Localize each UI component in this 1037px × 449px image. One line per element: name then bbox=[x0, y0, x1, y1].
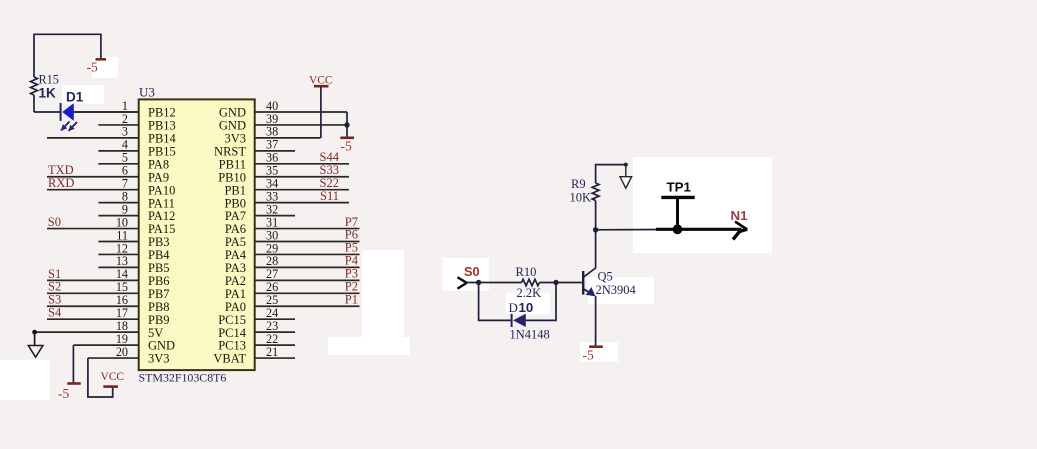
svg-text:PA9: PA9 bbox=[148, 170, 169, 184]
svg-text:27: 27 bbox=[266, 267, 278, 281]
svg-text:PB10: PB10 bbox=[218, 170, 246, 184]
svg-text:N1: N1 bbox=[731, 208, 749, 223]
svg-text:9: 9 bbox=[122, 202, 128, 216]
svg-text:1: 1 bbox=[122, 99, 128, 113]
svg-text:31: 31 bbox=[266, 215, 278, 229]
svg-text:GND: GND bbox=[219, 106, 246, 120]
svg-text:6: 6 bbox=[122, 164, 128, 178]
svg-text:40: 40 bbox=[266, 99, 278, 113]
svg-text:19: 19 bbox=[116, 332, 128, 346]
svg-text:Q5: Q5 bbox=[598, 269, 613, 283]
svg-text:TP1: TP1 bbox=[667, 179, 692, 194]
svg-text:22: 22 bbox=[266, 332, 278, 346]
svg-text:36: 36 bbox=[266, 151, 278, 165]
svg-text:8: 8 bbox=[122, 189, 128, 203]
svg-text:20: 20 bbox=[116, 345, 128, 359]
svg-text:PB1: PB1 bbox=[224, 183, 246, 197]
svg-text:S3: S3 bbox=[48, 293, 61, 307]
svg-text:26: 26 bbox=[266, 280, 278, 294]
svg-text:23: 23 bbox=[266, 319, 278, 333]
svg-text:R9: R9 bbox=[571, 177, 586, 191]
svg-text:PA8: PA8 bbox=[148, 157, 169, 171]
svg-text:R15: R15 bbox=[39, 73, 59, 87]
svg-text:PB14: PB14 bbox=[148, 132, 177, 146]
svg-text:D: D bbox=[509, 300, 518, 315]
svg-text:32: 32 bbox=[266, 202, 278, 216]
svg-text:PB4: PB4 bbox=[148, 248, 170, 262]
svg-text:21: 21 bbox=[266, 345, 278, 359]
svg-text:PB13: PB13 bbox=[148, 119, 176, 133]
svg-text:P4: P4 bbox=[345, 254, 359, 268]
svg-text:5V: 5V bbox=[148, 326, 163, 340]
svg-text:PA10: PA10 bbox=[148, 183, 175, 197]
svg-text:PB8: PB8 bbox=[148, 300, 170, 314]
svg-text:1N4148: 1N4148 bbox=[510, 328, 550, 342]
svg-text:PA5: PA5 bbox=[225, 235, 246, 249]
svg-text:29: 29 bbox=[266, 241, 278, 255]
svg-text:S44: S44 bbox=[320, 150, 340, 164]
svg-text:NRST: NRST bbox=[214, 144, 246, 158]
svg-text:PB15: PB15 bbox=[148, 144, 176, 158]
svg-text:PB6: PB6 bbox=[148, 274, 170, 288]
svg-text:GND: GND bbox=[148, 339, 175, 353]
svg-text:14: 14 bbox=[116, 267, 128, 281]
svg-text:PA0: PA0 bbox=[225, 300, 246, 314]
svg-text:GND: GND bbox=[219, 119, 246, 133]
svg-text:PA11: PA11 bbox=[148, 196, 175, 210]
svg-text:R10: R10 bbox=[516, 265, 537, 279]
svg-text:12: 12 bbox=[116, 241, 128, 255]
svg-text:S2: S2 bbox=[48, 280, 61, 294]
svg-text:U3: U3 bbox=[139, 84, 155, 99]
svg-text:S33: S33 bbox=[320, 163, 339, 177]
svg-text:PA15: PA15 bbox=[148, 222, 175, 236]
svg-text:S1: S1 bbox=[48, 267, 61, 281]
svg-text:P5: P5 bbox=[345, 241, 358, 255]
svg-text:11: 11 bbox=[116, 228, 128, 242]
svg-text:2: 2 bbox=[122, 112, 128, 126]
svg-text:PA1: PA1 bbox=[225, 287, 246, 301]
svg-text:S0: S0 bbox=[464, 264, 480, 279]
svg-text:VCC: VCC bbox=[309, 75, 332, 87]
svg-text:S11: S11 bbox=[320, 189, 339, 203]
svg-text:35: 35 bbox=[266, 164, 278, 178]
svg-text:TXD: TXD bbox=[48, 163, 74, 177]
svg-text:S22: S22 bbox=[320, 176, 339, 190]
svg-text:PB5: PB5 bbox=[148, 261, 170, 275]
svg-text:PA6: PA6 bbox=[225, 222, 246, 236]
svg-text:4: 4 bbox=[122, 138, 128, 152]
svg-text:S4: S4 bbox=[48, 306, 62, 320]
svg-text:34: 34 bbox=[266, 177, 278, 191]
svg-text:3V3: 3V3 bbox=[148, 352, 170, 366]
svg-text:30: 30 bbox=[266, 228, 278, 242]
svg-text:10K: 10K bbox=[570, 191, 592, 205]
svg-text:-5: -5 bbox=[583, 348, 594, 363]
svg-text:39: 39 bbox=[266, 112, 278, 126]
svg-text:PB9: PB9 bbox=[148, 313, 170, 327]
svg-text:-5: -5 bbox=[58, 386, 69, 401]
svg-text:5: 5 bbox=[122, 151, 128, 165]
svg-text:VCC: VCC bbox=[101, 371, 124, 383]
svg-text:7: 7 bbox=[122, 177, 128, 191]
svg-text:PA7: PA7 bbox=[225, 209, 246, 223]
svg-text:3: 3 bbox=[122, 125, 128, 139]
svg-text:10: 10 bbox=[519, 300, 534, 315]
svg-text:PC15: PC15 bbox=[218, 313, 246, 327]
svg-text:33: 33 bbox=[266, 189, 278, 203]
svg-text:PB0: PB0 bbox=[224, 196, 246, 210]
svg-text:D1: D1 bbox=[66, 90, 84, 105]
svg-text:25: 25 bbox=[266, 293, 278, 307]
svg-text:RXD: RXD bbox=[48, 176, 74, 190]
svg-text:2.2K: 2.2K bbox=[517, 286, 542, 300]
svg-text:10: 10 bbox=[116, 215, 128, 229]
svg-text:13: 13 bbox=[116, 254, 128, 268]
svg-text:PA12: PA12 bbox=[148, 209, 175, 223]
svg-text:P3: P3 bbox=[345, 267, 358, 281]
svg-text:-5: -5 bbox=[87, 60, 98, 75]
svg-text:PA3: PA3 bbox=[225, 261, 246, 275]
svg-text:PC13: PC13 bbox=[218, 339, 246, 353]
svg-text:PB11: PB11 bbox=[219, 157, 246, 171]
svg-text:P6: P6 bbox=[345, 228, 358, 242]
svg-text:VBAT: VBAT bbox=[213, 352, 246, 366]
svg-text:PC14: PC14 bbox=[218, 326, 247, 340]
svg-text:15: 15 bbox=[116, 280, 128, 294]
svg-text:2N3904: 2N3904 bbox=[596, 283, 637, 297]
svg-text:16: 16 bbox=[116, 293, 128, 307]
svg-text:1K: 1K bbox=[39, 86, 57, 101]
svg-text:18: 18 bbox=[116, 319, 128, 333]
svg-text:37: 37 bbox=[266, 138, 278, 152]
svg-text:17: 17 bbox=[116, 306, 128, 320]
svg-text:P1: P1 bbox=[345, 292, 358, 306]
svg-text:28: 28 bbox=[266, 254, 278, 268]
svg-text:PB12: PB12 bbox=[148, 106, 176, 120]
svg-text:3V3: 3V3 bbox=[224, 132, 246, 146]
svg-text:STM32F103C8T6: STM32F103C8T6 bbox=[139, 371, 227, 385]
svg-text:-5: -5 bbox=[341, 139, 352, 154]
svg-text:PB3: PB3 bbox=[148, 235, 170, 249]
svg-text:PB7: PB7 bbox=[148, 287, 170, 301]
svg-text:PA4: PA4 bbox=[225, 248, 247, 262]
svg-text:38: 38 bbox=[266, 125, 278, 139]
svg-text:PA2: PA2 bbox=[225, 274, 246, 288]
svg-text:P7: P7 bbox=[345, 215, 358, 229]
svg-text:24: 24 bbox=[266, 306, 278, 320]
svg-text:P2: P2 bbox=[345, 280, 358, 294]
svg-text:S0: S0 bbox=[48, 215, 61, 229]
